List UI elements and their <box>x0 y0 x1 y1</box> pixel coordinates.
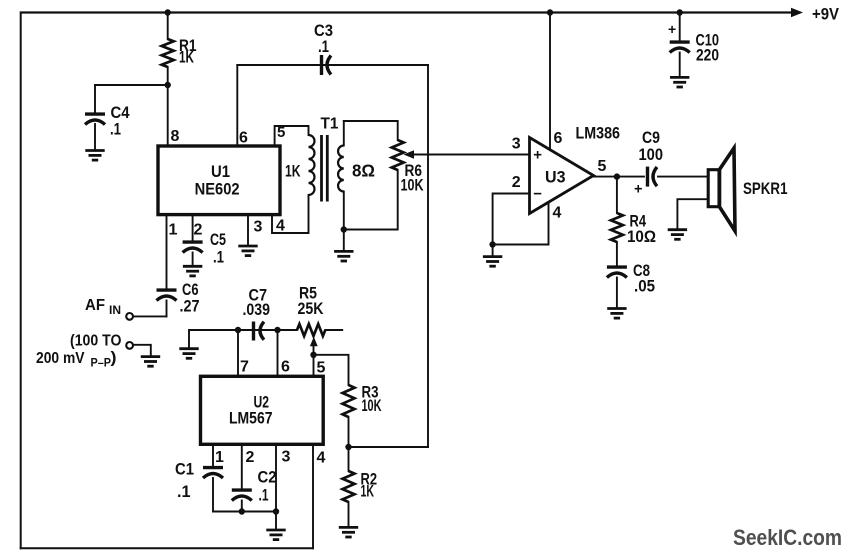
wire R3 bottom to node B <box>348 417 350 447</box>
wire R6 wiper to U3 pin 3 <box>412 154 530 156</box>
svg-text:LM567: LM567 <box>229 409 273 428</box>
svg-text:1K: 1K <box>285 163 301 181</box>
wire U1 pin 5 loop <box>275 126 309 145</box>
junction U3 output <box>614 173 620 179</box>
svg-text:SeekIC.com: SeekIC.com <box>733 525 842 550</box>
junction R5 wiper / U2 pin5 <box>310 352 316 358</box>
svg-text:T1: T1 <box>321 116 339 133</box>
T1 core bars <box>320 135 323 202</box>
svg-text:+: + <box>668 21 676 37</box>
svg-text:(100 TO: (100 TO <box>70 333 122 350</box>
svg-text:5: 5 <box>598 158 607 175</box>
capacitor C8 .05 <box>607 267 627 277</box>
wire R5 wiper stem <box>313 345 315 355</box>
ground SPKR1 <box>668 230 687 240</box>
ground C10 <box>670 77 689 87</box>
svg-text:1: 1 <box>169 222 178 239</box>
R5 wiper arrow <box>310 337 318 346</box>
wire R5 right stub <box>325 329 342 331</box>
wire R2 to ground <box>348 502 350 527</box>
resistor R2 1K <box>343 471 355 502</box>
svg-text:5: 5 <box>317 360 326 377</box>
svg-text:3: 3 <box>512 136 521 153</box>
svg-text:−: − <box>533 186 542 203</box>
speaker SPKR1 <box>708 148 735 231</box>
svg-text:6: 6 <box>554 130 563 147</box>
svg-text:10Ω: 10Ω <box>627 227 656 246</box>
svg-text:4: 4 <box>553 205 562 222</box>
svg-text:25K: 25K <box>298 300 324 318</box>
wire T1 primary bottom to U1 pin 4 <box>272 195 309 233</box>
capacitor C1 .1 <box>203 468 223 478</box>
wire U2 pin 5 riser <box>313 355 315 376</box>
capacitor C5 .1 <box>183 242 203 252</box>
capacitor C7 .039 <box>254 322 265 341</box>
resistor R5 25K (pot) <box>297 324 325 336</box>
wire lower terminal to ground <box>133 345 151 357</box>
+9V arrowhead <box>791 8 803 17</box>
svg-text:U1: U1 <box>211 163 230 181</box>
wire U2 pin 2 stem <box>241 445 243 488</box>
svg-text:C5: C5 <box>210 231 226 249</box>
wire C1/C2 bottom bus <box>213 511 276 513</box>
svg-text:+: + <box>634 182 642 198</box>
svg-text:100: 100 <box>639 146 664 164</box>
svg-text:8: 8 <box>171 128 180 145</box>
wire T1 secondary bottom stem <box>343 192 345 230</box>
svg-text:200 mV: 200 mV <box>36 350 85 367</box>
junction node B (R3/R2/feedback) <box>345 444 351 450</box>
wire U1 pin 1 to C6 <box>166 216 168 289</box>
svg-text:IN: IN <box>109 305 121 317</box>
resistor R3 10K <box>343 385 355 417</box>
ground R2 <box>339 527 358 537</box>
wire feedback bottom to R3/R2 node <box>349 446 429 448</box>
wire node B to R2 <box>348 447 350 471</box>
svg-text:4: 4 <box>317 450 326 467</box>
wire R4 top <box>616 177 618 213</box>
IC U1 NE602 <box>158 146 280 215</box>
wire feedback vertical C3 to R3/R2 node <box>427 65 429 447</box>
resistor R6 10K (pot) <box>392 140 404 170</box>
wire U3 output to C9 <box>594 176 645 178</box>
svg-text:.1: .1 <box>177 483 191 501</box>
svg-text:3: 3 <box>282 449 291 466</box>
junction C7 right / U2 pin6 <box>274 327 280 333</box>
svg-text:C6: C6 <box>182 281 199 299</box>
svg-text:6: 6 <box>281 359 290 376</box>
wire SPKR1 return to ground <box>677 199 708 229</box>
wire ground stem at T1 secondary <box>343 230 345 252</box>
R6 wiper arrow <box>404 150 415 158</box>
wire U3 pin 4 to ground <box>493 202 549 245</box>
svg-text:10K: 10K <box>401 177 424 195</box>
svg-text:3: 3 <box>254 219 263 236</box>
T1 primary winding 1K <box>309 135 315 195</box>
wire C4 top stem <box>94 85 96 113</box>
op-amp U3 LM386 <box>530 138 594 214</box>
svg-text:.1: .1 <box>318 38 329 56</box>
svg-text:SPKR1: SPKR1 <box>743 180 788 198</box>
svg-text:.05: .05 <box>634 278 655 296</box>
wire U1 pin 3 to ground <box>247 215 249 246</box>
capacitor C2 .1 <box>232 490 252 500</box>
CAPACITORS <box>85 42 690 500</box>
wire AF terminal to C6 <box>132 315 166 317</box>
svg-text:1K: 1K <box>179 49 194 67</box>
svg-text:8Ω: 8Ω <box>352 161 375 181</box>
wire R1 top stub <box>167 13 169 40</box>
wire C5 to ground <box>192 253 194 267</box>
ground C5 <box>183 266 202 276</box>
svg-text:AF: AF <box>85 297 105 314</box>
junction U3 pin2/pin4 ground <box>489 241 495 247</box>
svg-text:.1: .1 <box>259 487 269 505</box>
T1 secondary winding 8 ohm <box>338 146 344 192</box>
wire U2 pin 3 to ground <box>275 444 277 530</box>
svg-text:U3: U3 <box>545 169 566 187</box>
svg-text:P–P: P–P <box>91 358 112 370</box>
svg-text:): ) <box>111 350 117 367</box>
wire R4 bottom to C8 <box>616 242 618 266</box>
wire C1 bottom stem <box>212 478 214 512</box>
junction C2 on bottom bus <box>239 508 245 514</box>
junction C10 on rail <box>677 9 683 15</box>
IC U2 LM567 <box>201 376 324 444</box>
wire T1 secondary top stem <box>343 121 345 146</box>
ground lower input terminal <box>141 357 160 367</box>
svg-text:2: 2 <box>246 449 255 466</box>
ground input bus <box>179 349 198 359</box>
wire input bus ground riser <box>189 330 238 349</box>
input terminal lower <box>126 342 133 349</box>
capacitor C4 .1 <box>85 114 105 124</box>
wire R6 bottom to ground node <box>344 170 398 230</box>
wire ground stem U3 <box>492 245 494 257</box>
wire C2 bottom stem <box>241 501 243 512</box>
svg-text:10K: 10K <box>362 397 382 415</box>
wire C7 span <box>238 329 297 331</box>
svg-text:6: 6 <box>239 130 248 147</box>
wire C8 to ground <box>616 278 618 309</box>
ground C8 <box>607 309 626 319</box>
transformer T1 <box>309 135 344 202</box>
ground U3 pins 2/4 <box>483 257 502 267</box>
junction R1 top on rail <box>165 9 171 15</box>
wire C10 top stem <box>679 13 681 41</box>
junction node A (R1/C4/pin8) <box>165 82 171 88</box>
svg-text:LM386: LM386 <box>576 124 621 143</box>
wire C4 bottom stem <box>94 124 96 150</box>
ground U1 pin 3 <box>238 246 257 256</box>
junction bottom bus / U2 pin3 <box>273 508 279 514</box>
wire C3 horizontal <box>237 64 428 66</box>
RESISTORS <box>162 39 623 502</box>
wire R1 bottom to node A <box>167 67 169 85</box>
svg-text:4: 4 <box>276 218 285 235</box>
resistor R4 10ohm <box>611 213 623 242</box>
svg-text:1K: 1K <box>361 483 375 501</box>
junction U3 pin6 on rail <box>547 9 553 15</box>
wire left border (V+ to U2 pin 4 loop, left side) <box>20 13 22 549</box>
wire U1 pin 6 riser <box>236 65 238 145</box>
wire C6 to AF input <box>166 301 168 317</box>
capacitor C10 220 <box>670 42 690 52</box>
junction C7 left / U2 pin7 <box>235 327 241 333</box>
wire +9V rail top <box>21 11 794 13</box>
svg-text:.1: .1 <box>213 249 224 267</box>
ground U2 pin 3 <box>266 530 285 540</box>
capacitor C9 100 <box>648 167 658 187</box>
capacitor C6 .27 <box>157 290 177 300</box>
svg-text:C4: C4 <box>111 104 131 122</box>
wire T1 secondary top to R6 <box>344 121 398 140</box>
svg-text:1: 1 <box>215 449 224 466</box>
svg-text:NE602: NE602 <box>195 180 240 199</box>
wire U3 pin 2 to ground <box>493 194 530 245</box>
wire U3 pin 6 riser <box>549 13 551 151</box>
svg-text:C9: C9 <box>642 129 660 147</box>
svg-text:C2: C2 <box>258 469 277 487</box>
wire C10 to ground <box>679 53 681 78</box>
svg-text:.039: .039 <box>243 301 271 319</box>
input terminal AF <box>126 313 133 320</box>
svg-text:2: 2 <box>512 174 521 191</box>
ground T1 secondary <box>334 251 353 261</box>
ground C4 <box>85 151 104 161</box>
resistor R1 1K <box>162 39 174 67</box>
wire U1 pin 2 stem to C5 <box>192 216 194 241</box>
wire bottom border (to U2 pin 4) <box>21 547 313 549</box>
wire U2 pin 1 stem <box>212 445 214 466</box>
svg-text:220: 220 <box>696 47 719 65</box>
svg-text:.27: .27 <box>180 298 200 316</box>
wire node A to C4 <box>95 84 168 86</box>
junction T1 secondary ground <box>341 226 347 232</box>
svg-text:2: 2 <box>194 222 203 239</box>
svg-text:+9V: +9V <box>812 5 840 24</box>
wire U2 pin 7 riser <box>237 330 239 376</box>
capacitor C3 .1 <box>322 55 332 75</box>
wire wiper node to R3 <box>314 355 349 385</box>
svg-text:5: 5 <box>277 124 285 141</box>
svg-text:+: + <box>533 147 542 164</box>
svg-text:.1: .1 <box>110 121 121 139</box>
wire U1 pin 8 <box>167 85 169 145</box>
wire C9 to SPKR1 <box>658 176 709 178</box>
svg-text:7: 7 <box>240 359 249 376</box>
wire U2 pin 6 riser <box>277 330 279 376</box>
svg-text:C1: C1 <box>175 461 194 479</box>
wire U2 pin 4 riser <box>312 444 314 548</box>
